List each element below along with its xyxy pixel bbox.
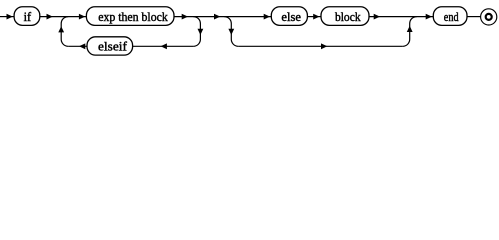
terminal-box else [271,7,307,26]
arrow bypass-down (points down) [228,29,234,35]
wire bypass-branch-down [224,17,238,47]
svg-text:else: else [281,10,301,24]
arrow into block [313,14,319,20]
wire main-entry [0,16,14,18]
end terminal inner ring [486,14,492,20]
arrow into exp-then-block [79,14,85,20]
wire elseif-left-segment [68,45,87,47]
end terminal outer circle [481,9,497,25]
svg-text:exp then block: exp then block [98,10,168,24]
arrow elseif-right (points left) [161,43,167,49]
svg-text:block: block [335,10,361,24]
wire end-to-terminal [467,16,480,18]
terminal-box end [433,7,467,26]
arrow loop-up (points up) [58,26,64,32]
wire if-to-exp [40,16,87,18]
wire exp-to-else [174,16,271,18]
arrow into if [7,14,13,20]
arrow elseif-left (points left) [79,43,85,49]
wire loop-merge-left [61,17,68,47]
arrow before bypass-branch [214,14,220,20]
wire block-to-end [369,16,433,18]
terminal-box if [14,7,40,26]
terminal-box elseif [87,37,133,55]
arrow into else [264,14,270,20]
arrow after block [374,14,380,20]
arrow bypass-up (points up) [407,26,413,32]
arrow loop-down (points down) [198,29,204,35]
wire bypass-bottom [238,45,402,47]
terminal-box exp-then-block [86,7,174,26]
arrow after if [47,14,53,20]
wire else-to-block [307,16,321,18]
svg-text:end: end [444,10,459,24]
svg-text:if: if [24,10,32,24]
svg-text:elseif: elseif [98,40,128,54]
wire bypass-merge-up [403,17,417,47]
arrow bypass-mid (points right) [321,43,327,49]
arrow after exp-then-block [182,14,188,20]
wire loop-branch-right [193,17,200,47]
terminal-box block [321,7,369,26]
arrow into end [426,14,432,20]
wire elseif-right-segment [133,45,194,47]
